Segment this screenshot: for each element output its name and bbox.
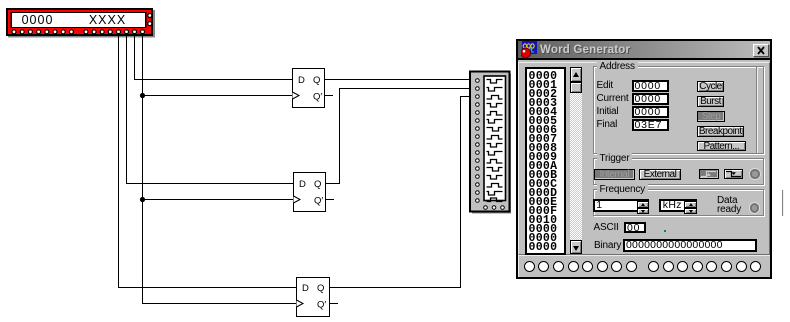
Current field	[632, 93, 669, 105]
D flip-flop U3	[297, 278, 330, 317]
Binary field	[623, 239, 757, 252]
scrollbar up button	[570, 67, 582, 82]
word generator instrument window	[516, 39, 772, 279]
XLA1 channel pins	[476, 79, 480, 203]
Binary label	[594, 240, 621, 252]
junction J2	[140, 197, 145, 202]
XWG1 pins right group	[84, 30, 145, 34]
divider	[756, 67, 758, 153]
close button	[753, 44, 769, 57]
word generator XWG1 shadow	[8, 10, 155, 38]
wire U3 Q to analyzer ch3	[330, 97, 470, 288]
trigger radio led	[750, 169, 760, 179]
logic analyzer XLA1 body	[470, 72, 510, 212]
wire W4 clock bus	[143, 33, 297, 304]
data ready label	[717, 196, 741, 215]
D flip-flop U2	[294, 173, 326, 212]
title bar icon	[521, 41, 540, 59]
Burst button	[697, 96, 724, 107]
XLA1 bottom pins	[484, 206, 505, 210]
title bar	[518, 41, 770, 60]
wire W3 pin15 to U1 D	[135, 33, 293, 80]
svg-text:Q: Q	[314, 179, 321, 190]
Initial field	[632, 106, 669, 118]
wire U2 Q to analyzer ch2	[326, 89, 470, 184]
External button	[639, 169, 681, 180]
ASCII field	[624, 222, 646, 234]
falling edge button	[724, 169, 744, 179]
data ready led	[750, 203, 760, 213]
ASCII label	[594, 222, 619, 234]
svg-text:D: D	[299, 179, 306, 190]
buffer list box	[525, 67, 566, 255]
kHz field	[659, 199, 697, 212]
Final field	[632, 119, 669, 131]
logic analyzer XLA1 shadow	[472, 74, 511, 214]
svg-text:Q: Q	[317, 283, 324, 294]
wire W4b to U2 clk	[143, 199, 294, 201]
wire U2 Qbar stub	[326, 199, 334, 201]
wire W4a to U1 clk	[143, 95, 293, 97]
Final label	[597, 119, 618, 131]
wire U3 Qbar stub	[330, 303, 338, 305]
rising edge button (active)	[699, 169, 719, 179]
svg-text:0000: 0000	[22, 13, 54, 27]
Trigger group box	[593, 158, 764, 186]
XWG1 pins left group	[12, 30, 73, 34]
Initial label	[597, 106, 619, 118]
word generator XWG1 body	[6, 8, 153, 36]
svg-text:Q′: Q′	[317, 300, 326, 311]
wire W1 pin13 to U3 D	[119, 33, 297, 288]
XLA1 waveform glyphs	[487, 80, 503, 202]
XWG1 side pins	[148, 14, 152, 26]
Breakpoint button	[697, 126, 744, 137]
title text	[540, 41, 720, 60]
svg-text:Q′: Q′	[314, 196, 323, 207]
scrollbar thumb	[570, 82, 582, 93]
output terminals row	[518, 261, 770, 272]
wire U1 Qbar stub	[325, 95, 333, 97]
scrollbar down button	[570, 240, 582, 254]
svg-text:XXXX: XXXX	[89, 13, 126, 27]
junction J1	[140, 93, 145, 98]
Edit label	[597, 80, 613, 92]
Step button (active)	[697, 111, 725, 122]
frequency value field	[593, 199, 649, 212]
divider	[782, 190, 784, 216]
Pattern button	[697, 141, 746, 152]
svg-text:D: D	[302, 283, 309, 294]
stray teal pixel	[664, 230, 666, 232]
content panel	[518, 62, 770, 255]
D flip-flop U1	[293, 69, 325, 108]
Current label	[597, 93, 629, 105]
svg-text:D: D	[298, 75, 305, 86]
Address group box	[593, 66, 764, 154]
svg-text:Q′: Q′	[313, 92, 322, 103]
wire W2 pin14 to U2 D	[127, 33, 294, 184]
wire U1 Q to analyzer ch1	[325, 79, 470, 81]
scrollbar	[570, 67, 582, 254]
svg-text:Q: Q	[313, 75, 320, 86]
Edit field	[632, 80, 669, 92]
bottom panel	[518, 255, 770, 277]
Cycle button	[697, 81, 724, 92]
Internal button (active)	[594, 169, 635, 180]
Frequency group box	[593, 189, 764, 216]
